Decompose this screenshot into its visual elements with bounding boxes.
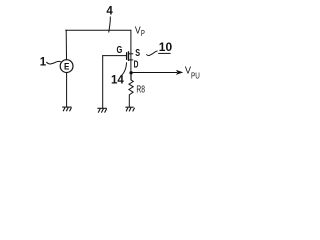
svg-text:14: 14 [111, 75, 124, 87]
ground middle [97, 108, 106, 112]
wire left vertical lower [66, 73, 68, 108]
transistor drain lead [129, 59, 134, 61]
svg-text:PU: PU [191, 70, 200, 80]
ground right [125, 107, 134, 111]
wire VPU output with arrow [133, 72, 177, 74]
leader from 4 [109, 17, 111, 33]
voltage source E circle [60, 60, 73, 73]
svg-text:D: D [134, 60, 139, 71]
wire top horizontal (VP rail) [66, 29, 131, 31]
transistor Q (ref 10) gate bar [126, 52, 128, 60]
leader squiggle from 1 [46, 61, 60, 64]
wire right vertical (source/drain line) [130, 30, 132, 80]
svg-text:1: 1 [40, 56, 47, 68]
node dot drain junction [129, 71, 132, 74]
wire left vertical upper [65, 30, 67, 60]
svg-text:E: E [64, 61, 69, 72]
leader squiggle from 10 [146, 51, 157, 56]
wire gate lead [103, 55, 127, 57]
svg-text:V: V [135, 24, 141, 36]
ground left [62, 107, 71, 111]
svg-text:S: S [135, 48, 140, 59]
svg-text:P: P [141, 28, 145, 38]
wire resistor bottom lead [128, 96, 130, 107]
svg-text:10: 10 [159, 40, 173, 54]
svg-text:R8: R8 [136, 85, 145, 96]
transistor channel bar [128, 51, 130, 61]
wire resistor top lead [130, 74, 132, 80]
wire gate branch vertical [102, 56, 104, 109]
underline of 10 [158, 52, 170, 54]
transistor source lead [129, 53, 134, 55]
svg-text:G: G [117, 45, 123, 56]
svg-text:4: 4 [106, 5, 113, 17]
arrowhead VPU [176, 70, 183, 75]
leader from 14 [122, 62, 127, 75]
resistor R8 zigzag [129, 80, 133, 96]
